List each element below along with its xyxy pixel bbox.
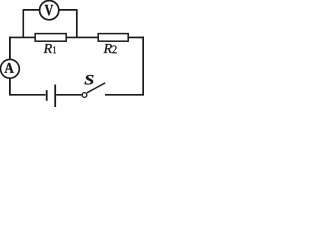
wire left vertical: [9, 37, 11, 95]
wire voltmeter branch left vertical: [22, 9, 24, 37]
wire bottom-right (switch fixed contact side): [105, 94, 144, 96]
label R1: [44, 44, 56, 53]
label S: [85, 75, 94, 85]
switch S: [82, 83, 105, 97]
battery cell: [47, 85, 82, 108]
wire bottom-left: [9, 94, 46, 96]
label R2: [104, 44, 117, 53]
resistor R1: [35, 34, 66, 42]
wire between R1 and R2: [66, 36, 98, 38]
wire voltmeter branch top horizontal: [23, 9, 77, 11]
wire top-left segment: [10, 36, 36, 38]
resistor R2: [98, 34, 128, 42]
wire top-right segment: [128, 36, 143, 38]
wire voltmeter branch right vertical: [76, 9, 78, 37]
ammeter A: [1, 59, 20, 78]
voltmeter U: [40, 1, 59, 20]
wire right vertical: [142, 37, 144, 95]
